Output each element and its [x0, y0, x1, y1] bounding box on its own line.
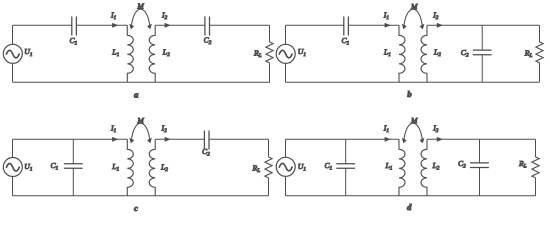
wire: C2 branch lower (d): [479, 167, 481, 196]
wire: right rail top (d): [535, 139, 537, 157]
wire: right rail top (b): [539, 25, 541, 42]
wire: left rail top (b): [285, 25, 287, 44]
svg-text:d: d: [407, 202, 412, 212]
svg-text:M: M: [410, 116, 418, 125]
AC source U1 (circuit b): [276, 44, 295, 63]
wire: left rail bottom (b): [285, 63, 287, 82]
wire: top segment L2 to C2 (a): [155, 24, 205, 26]
current arrow I1 (circuit b): [385, 23, 391, 28]
inductor L1 (circuit b): [399, 25, 405, 82]
svg-text:I2: I2: [432, 11, 439, 22]
wire: left rail top (c): [12, 139, 14, 157]
wire: right rail top (c): [268, 139, 270, 157]
svg-text:I1: I1: [383, 11, 390, 22]
svg-text:I2: I2: [161, 124, 168, 135]
svg-text:C1: C1: [325, 161, 333, 172]
capacitor C2 (circuit b, parallel): [473, 50, 492, 55]
wire: bottom return (a): [13, 81, 271, 83]
svg-text:C2: C2: [458, 159, 466, 170]
wire: right rail top (a): [269, 25, 271, 42]
wire: top segment C1 to L1 (b): [348, 24, 399, 26]
circuit c: parallel-series compensation topology: [3, 116, 272, 213]
svg-text:C1: C1: [51, 161, 59, 172]
wire: top left segment to C1 (a): [13, 24, 72, 26]
wire: top left segment (d): [286, 138, 400, 140]
current arrow I2 (circuit c): [165, 137, 171, 142]
wire: C2 branch upper (b): [481, 25, 483, 50]
mutual inductance arrow M (circuit c): [129, 123, 152, 143]
circuit a: series-series compensation topology: [3, 2, 273, 100]
inductor L2 (circuit d): [421, 139, 427, 195]
svg-text:U1: U1: [24, 47, 33, 58]
svg-text:U1: U1: [298, 162, 307, 173]
svg-text:RL: RL: [252, 164, 261, 175]
svg-text:L2: L2: [432, 161, 440, 172]
svg-text:L1: L1: [383, 48, 391, 59]
current arrow I2 (circuit a): [165, 23, 171, 28]
svg-text:RL: RL: [518, 159, 527, 170]
mutual inductance arrow M (circuit b): [402, 9, 425, 29]
wire: C1 branch upper (c): [72, 139, 74, 164]
wire: bottom return (c): [13, 195, 269, 197]
wire: bottom return (d): [286, 195, 536, 197]
svg-text:M: M: [410, 2, 418, 11]
capacitor C1 (circuit a, series): [72, 17, 77, 36]
wire: right rail bottom (b): [539, 63, 541, 82]
wire: left rail bottom (a): [12, 63, 14, 82]
wire: top right segment to RL (c): [209, 138, 269, 140]
current arrow I1 (circuit d): [385, 137, 391, 142]
wire: top right segment to RL (a): [210, 24, 270, 26]
inductor L2 (circuit b): [421, 25, 427, 82]
wire: C1 branch lower (c): [72, 168, 74, 196]
wire: left rail bottom (c): [12, 176, 14, 195]
wire: C2 branch lower (b): [481, 55, 483, 83]
svg-text:L1: L1: [111, 48, 119, 59]
wire: right rail bottom (a): [269, 63, 271, 82]
inductor L1 (circuit c): [127, 139, 133, 195]
AC source U1 (circuit d): [276, 157, 295, 176]
svg-text:L2: L2: [162, 48, 170, 59]
svg-text:c: c: [134, 203, 138, 213]
wire: C2 branch upper (d): [479, 139, 481, 163]
circuit d: parallel-parallel compensation topology: [276, 116, 539, 212]
svg-text:C1: C1: [342, 36, 350, 47]
svg-text:L2: L2: [433, 48, 441, 59]
mutual inductance arrow M (circuit a): [129, 9, 152, 29]
inductor L2 (circuit c): [149, 139, 155, 195]
wire: top left segment to C1 (b): [286, 24, 344, 26]
svg-text:U1: U1: [298, 47, 307, 58]
resistor RL (circuit c): [265, 157, 272, 178]
wire: left rail bottom (d): [285, 176, 287, 196]
circuit b: series-parallel compensation topology: [276, 2, 543, 99]
wire: top segment L2 to C2 (c): [155, 138, 204, 140]
svg-text:L2: L2: [160, 163, 168, 174]
capacitor C1 (circuit b, series): [344, 17, 349, 36]
svg-text:U1: U1: [24, 162, 33, 173]
wire: top segment L2 to RL (b): [427, 24, 540, 26]
capacitor C2 (circuit c, series): [204, 131, 209, 150]
capacitor C1 (circuit c, parallel): [64, 164, 83, 169]
svg-text:I1: I1: [110, 124, 117, 135]
wire: C1 branch lower (d): [345, 168, 347, 196]
wire: C1 branch upper (d): [345, 139, 347, 164]
current arrow I2 (circuit d): [437, 137, 443, 142]
resistor RL (circuit d): [532, 157, 539, 178]
inductor L1 (circuit d): [399, 139, 405, 195]
current arrow I1 (circuit c): [112, 137, 118, 142]
svg-text:C1: C1: [70, 36, 78, 47]
capacitor C2 (circuit a, series): [205, 17, 210, 36]
current arrow I1 (circuit a): [112, 23, 118, 28]
svg-text:a: a: [134, 90, 139, 100]
svg-text:RL: RL: [524, 48, 533, 59]
wire: top segment C1 to L1 (a): [76, 24, 127, 26]
svg-text:I2: I2: [161, 11, 168, 22]
capacitor C2 (circuit d, parallel): [470, 163, 489, 168]
svg-text:L1: L1: [385, 161, 393, 172]
svg-text:M: M: [136, 2, 144, 11]
inductor L2 (circuit a): [149, 25, 155, 82]
svg-text:M: M: [136, 116, 144, 125]
wire: top left segment (c): [13, 138, 128, 140]
resistor RL (circuit a): [266, 42, 273, 63]
resistor RL (circuit b): [536, 42, 543, 63]
svg-text:I2: I2: [432, 124, 439, 135]
wire: right rail bottom (d): [535, 178, 537, 196]
svg-text:C2: C2: [204, 35, 212, 46]
svg-text:RL: RL: [253, 49, 262, 60]
wire: top segment L2 to RL (d): [427, 138, 536, 140]
capacitor C1 (circuit d, parallel): [336, 164, 355, 169]
svg-text:C2: C2: [461, 48, 469, 59]
wire: left rail top (a): [12, 25, 14, 44]
mutual inductance arrow M (circuit d): [402, 123, 425, 143]
current arrow I2 (circuit b): [437, 23, 443, 28]
svg-text:I1: I1: [383, 124, 390, 135]
svg-text:L1: L1: [111, 162, 119, 173]
inductor L1 (circuit a): [127, 25, 133, 82]
svg-text:b: b: [407, 89, 412, 99]
AC source U1 (circuit c): [3, 158, 22, 177]
wire: bottom return (b): [286, 81, 540, 83]
wire: left rail top (d): [285, 139, 287, 157]
AC source U1 (circuit a): [3, 44, 22, 63]
svg-text:I1: I1: [110, 11, 117, 22]
wire: right rail bottom (c): [268, 178, 270, 196]
